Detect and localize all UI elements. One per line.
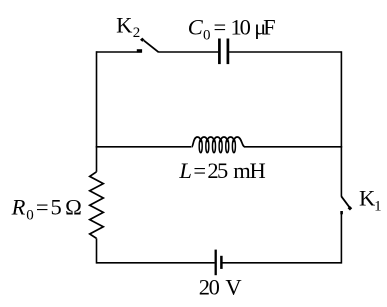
svg-text:K: K — [116, 12, 133, 37]
wire left rail lower (resistor to bottom corner) — [96, 238, 98, 263]
svg-text:5: 5 — [51, 194, 62, 219]
wire bottom left (corner to battery long plate) — [97, 262, 215, 264]
svg-text:=: = — [36, 194, 49, 219]
battery short plate — [220, 256, 223, 269]
switch K1 blade — [341, 196, 349, 207]
wire middle branch right (inductor to right rail) — [245, 146, 343, 148]
svg-text:Ω: Ω — [65, 194, 82, 219]
svg-text:0: 0 — [26, 208, 34, 224]
switch K1 blade dot — [348, 206, 353, 211]
capacitor C0 right plate — [227, 39, 230, 65]
switch K1 fixed contact tick — [340, 211, 343, 214]
svg-text:=: = — [214, 14, 227, 39]
wire top-right segment (capacitor to right corner) — [229, 51, 341, 53]
switch K2 blade — [144, 41, 159, 53]
wire top-left segment (corner to switch K2 contact) — [97, 51, 142, 53]
svg-text:R: R — [11, 194, 26, 219]
svg-text:5: 5 — [217, 158, 228, 183]
svg-text:0: 0 — [203, 28, 211, 44]
svg-text:1: 1 — [374, 198, 382, 214]
svg-text:L: L — [178, 158, 192, 183]
svg-text:C: C — [188, 14, 204, 39]
wire middle branch left (left rail to inductor) — [96, 146, 192, 148]
svg-text:2: 2 — [133, 25, 141, 41]
switch K2 blade dot — [140, 38, 145, 42]
wire right rail upper (top corner to switch K1) — [340, 51, 342, 196]
wire top middle segment (K2 to capacitor left plate) — [158, 51, 218, 53]
capacitor C0 left plate — [218, 39, 221, 65]
switch K2 fixed contact tick — [137, 49, 142, 52]
svg-text:H: H — [250, 158, 266, 183]
svg-text:V: V — [225, 275, 241, 300]
svg-text:0: 0 — [240, 14, 251, 39]
battery long plate — [215, 250, 217, 276]
wire right rail lower (switch K1 to bottom corner) — [340, 211, 342, 264]
resistor R0 zigzag — [90, 172, 104, 239]
svg-text:F: F — [263, 14, 276, 39]
svg-text:=: = — [193, 158, 206, 183]
inductor L coil — [192, 137, 245, 147]
wire bottom right (battery short plate to corner) — [223, 262, 342, 264]
svg-text:0: 0 — [209, 275, 220, 300]
wire left rail upper (top corner to resistor) — [96, 51, 98, 172]
